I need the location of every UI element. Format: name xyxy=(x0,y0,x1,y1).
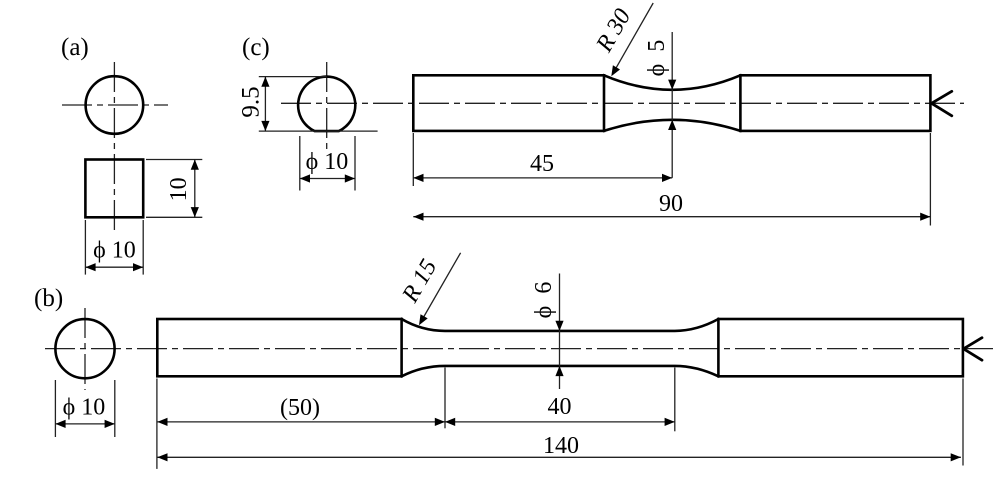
dimension line phi10 circle c xyxy=(300,174,355,182)
extension line right edge view b xyxy=(962,379,964,466)
svg-text:ϕ 10: ϕ 10 xyxy=(306,149,349,175)
dim text R15 xyxy=(397,255,442,308)
dim text 10 view a xyxy=(166,177,192,201)
specimen b gauge top edge xyxy=(402,319,719,331)
extension line right dim 90 view c xyxy=(929,133,931,226)
extension lines dim phi10 circle c xyxy=(300,136,355,191)
specimen c neck bottom edge xyxy=(604,120,740,131)
dimension line 50 view b xyxy=(157,418,445,426)
specimen b right grip xyxy=(718,319,963,376)
svg-text:9.5: 9.5 xyxy=(238,86,265,117)
svg-text:ϕ 5: ϕ 5 xyxy=(644,40,670,77)
svg-text:(50): (50) xyxy=(280,395,320,421)
dim text 90 view c xyxy=(659,191,683,217)
svg-text:10: 10 xyxy=(166,177,192,201)
dim text 40 view b xyxy=(548,394,572,420)
extension line left dim 45 view c xyxy=(412,133,414,186)
svg-text:ϕ 10: ϕ 10 xyxy=(63,395,106,421)
leader R30 xyxy=(611,3,653,76)
extension lines dim phi10 circle b xyxy=(55,380,114,437)
extension lines dim phi10 view a xyxy=(85,220,143,275)
dim text phi10 circle c xyxy=(306,149,349,175)
square view a xyxy=(85,160,143,218)
circle view a xyxy=(86,76,144,134)
circle view b xyxy=(55,319,114,378)
centerline vertical circle b xyxy=(84,308,86,390)
svg-text:(a): (a) xyxy=(61,34,89,61)
svg-text:ϕ 10: ϕ 10 xyxy=(93,238,136,264)
centerline vertical circle c xyxy=(326,62,328,150)
dim text 50 view b xyxy=(280,395,320,421)
svg-text:45: 45 xyxy=(530,151,554,177)
specimen c left grip xyxy=(413,75,604,131)
dim text phi10 view a xyxy=(93,238,136,264)
centerline vertical view a xyxy=(113,62,115,232)
centerline horizontal view b xyxy=(45,348,993,350)
extension line left edge view b xyxy=(156,379,158,469)
specimen b left grip xyxy=(157,319,401,376)
svg-text:R 30: R 30 xyxy=(591,5,636,58)
svg-text:ϕ 6: ϕ 6 xyxy=(531,282,557,319)
dim text R30 xyxy=(591,5,636,58)
specimen b gauge bottom edge xyxy=(402,366,719,376)
extension lines dim 9.5 view c xyxy=(259,77,378,132)
svg-text:140: 140 xyxy=(543,433,579,459)
centerline horizontal view a xyxy=(62,104,168,106)
dimension line 45 view c xyxy=(413,174,672,182)
dim text 140 view b xyxy=(543,433,579,459)
svg-text:R 15: R 15 xyxy=(397,255,442,308)
label (b) xyxy=(34,285,63,312)
dimension line 40 view b xyxy=(445,418,675,426)
specimen c right grip xyxy=(740,75,930,131)
break arrow right end view b xyxy=(964,338,983,361)
label (c) xyxy=(242,34,270,61)
svg-text:(b): (b) xyxy=(34,285,63,312)
dimension line phi6 view b xyxy=(555,274,563,390)
dim text phi10 circle b xyxy=(63,395,106,421)
extension line gauge left view b xyxy=(444,368,446,429)
extension line gauge right view b xyxy=(674,368,676,432)
label (a) xyxy=(61,34,89,61)
circle with flat view c xyxy=(298,77,355,132)
dim text phi6 view b xyxy=(531,282,557,319)
dimension line phi10 circle b xyxy=(55,420,114,428)
svg-text:(c): (c) xyxy=(242,34,270,61)
dimension line phi5 view c xyxy=(668,32,676,178)
leader R15 xyxy=(419,253,461,325)
dimension line 10 view a xyxy=(191,160,199,218)
svg-text:90: 90 xyxy=(659,191,683,217)
dimension line 9.5 view c xyxy=(261,77,269,132)
centerline horizontal view c xyxy=(281,102,964,104)
dimension line phi10 view a xyxy=(85,263,143,271)
extension lines dim 10 view a xyxy=(146,160,202,218)
dim text 9.5 view c xyxy=(238,86,265,117)
dim text 45 view c xyxy=(530,151,554,177)
specimen c neck top edge xyxy=(604,75,740,90)
dimension line 140 view b xyxy=(157,453,961,461)
svg-text:40: 40 xyxy=(548,394,572,420)
dim text phi5 view c xyxy=(644,40,670,77)
dimension line 90 view c xyxy=(413,213,930,221)
break arrow right end view c xyxy=(932,91,952,116)
